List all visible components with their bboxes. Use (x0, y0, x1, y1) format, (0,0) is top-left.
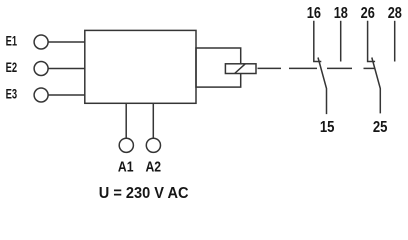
wire A2 from box (152, 103, 154, 138)
svg-text:E2: E2 (6, 60, 18, 75)
wire A1 from box (125, 103, 127, 138)
wire E1 to box (48, 41, 85, 43)
wire E3 to box (48, 94, 85, 96)
svg-text:18: 18 (334, 5, 348, 22)
svg-text:25: 25 (373, 119, 388, 136)
terminal circle E1 (34, 35, 48, 49)
svg-text:E1: E1 (6, 34, 18, 49)
terminal circle E2 (34, 62, 48, 76)
svg-text:28: 28 (388, 5, 402, 22)
wire E2 to box (48, 68, 85, 70)
svg-text:A2: A2 (146, 158, 162, 175)
relay coil K1 (225, 64, 256, 74)
main module box (85, 30, 196, 103)
mechanical linkage dashed line (258, 67, 375, 69)
svg-text:U = 230 V AC: U = 230 V AC (99, 185, 189, 202)
terminal 26 line with contact foot (368, 21, 376, 62)
svg-text:16: 16 (307, 5, 321, 22)
terminal circle E3 (34, 88, 48, 102)
contact 2 mover (25 common) (372, 58, 381, 114)
svg-text:E3: E3 (6, 87, 18, 102)
terminal circle A1 (119, 138, 133, 152)
terminal circle A2 (146, 138, 160, 152)
svg-text:26: 26 (361, 5, 375, 22)
coil feed loop (secondary rectangle) (196, 48, 241, 87)
svg-text:A1: A1 (118, 158, 134, 175)
svg-text:15: 15 (320, 119, 335, 136)
contact 1 mover (15 common) (318, 58, 327, 115)
terminal 16 line with contact foot (314, 21, 322, 62)
terminal 18 line (340, 21, 342, 62)
terminal 28 line (394, 21, 396, 62)
